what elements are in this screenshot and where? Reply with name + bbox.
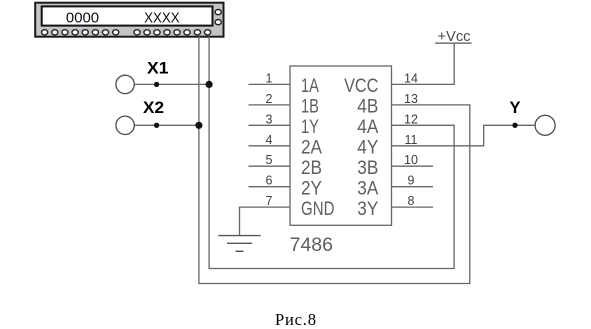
- svg-text:9: 9: [408, 174, 415, 188]
- svg-text:Рис.8: Рис.8: [275, 310, 316, 329]
- svg-text:11: 11: [405, 133, 418, 147]
- svg-text:GND: GND: [301, 198, 335, 220]
- svg-text:X1: X1: [147, 60, 169, 78]
- svg-text:3: 3: [266, 112, 273, 126]
- svg-text:8: 8: [408, 194, 415, 208]
- wire Vcc bar: [435, 42, 471, 44]
- IC pin name labels right column: [344, 75, 378, 220]
- svg-text:2Y: 2Y: [301, 177, 322, 199]
- svg-text:7: 7: [266, 194, 273, 208]
- wire pin 3 stub: [249, 124, 291, 126]
- wire net X2: analyzer hole 15 down, bottom run, up to pin 13 (4B): [199, 37, 470, 284]
- wire pin 7 to ground: [240, 207, 291, 236]
- wire pin 6 stub: [249, 186, 291, 188]
- terminal Y: [535, 115, 555, 135]
- ground symbol: [218, 236, 260, 252]
- svg-text:12: 12: [404, 112, 418, 126]
- svg-text:3B: 3B: [357, 157, 378, 179]
- wire net Y: pin 11 (4Y) to terminal: [392, 125, 536, 146]
- svg-text:4Y: 4Y: [357, 137, 378, 159]
- svg-text:2: 2: [266, 92, 273, 106]
- IC U1 7486 body: [290, 66, 392, 225]
- svg-text:7486: 7486: [290, 234, 333, 256]
- svg-text:14: 14: [404, 71, 418, 85]
- svg-text:6: 6: [266, 174, 273, 188]
- wire pin 8 stub: [392, 206, 434, 208]
- svg-text:4B: 4B: [357, 96, 378, 118]
- IC pin name labels left column: [301, 75, 335, 220]
- svg-text:3Y: 3Y: [357, 198, 378, 220]
- svg-text:VCC: VCC: [344, 75, 378, 97]
- svg-text:3A: 3A: [357, 177, 378, 199]
- svg-text:1B: 1B: [301, 96, 319, 118]
- wire pin 10 stub: [392, 165, 434, 167]
- wire X2 terminal to junction: [134, 124, 199, 126]
- junction dot X1/analyzer: [206, 81, 213, 88]
- svg-text:4A: 4A: [357, 116, 378, 138]
- wire X1 terminal to junction: [134, 83, 209, 85]
- wire pin 2 stub: [249, 104, 291, 106]
- analyzer connector holes row: [42, 30, 211, 35]
- wire pin 5 stub: [249, 165, 291, 167]
- terminal dot X2: [154, 123, 159, 128]
- svg-text:1Y: 1Y: [301, 116, 319, 138]
- svg-text:10: 10: [404, 153, 418, 167]
- logic analyzer display: [42, 6, 213, 25]
- svg-text:2B: 2B: [301, 157, 322, 179]
- terminal dot X1: [154, 82, 159, 87]
- svg-text:4: 4: [266, 133, 273, 147]
- wire pin 9 stub: [392, 186, 434, 188]
- svg-text:2A: 2A: [301, 137, 322, 159]
- analyzer side holes: [215, 10, 221, 25]
- svg-text:Y: Y: [510, 99, 521, 117]
- svg-text:13: 13: [404, 92, 418, 106]
- svg-text:1A: 1A: [301, 75, 319, 97]
- wire Vcc drop to pin 14: [392, 43, 455, 84]
- pin number labels left: [266, 71, 273, 208]
- svg-text:0000: 0000: [66, 9, 99, 26]
- logic analyzer instrument body: [35, 3, 223, 37]
- svg-text:X2: X2: [143, 99, 164, 117]
- wire net X1: analyzer hole 16 down, bottom run, up to pin 12 (4A): [209, 37, 454, 269]
- terminal dot Y: [512, 123, 517, 128]
- terminal X2: [116, 116, 134, 134]
- svg-text:5: 5: [266, 153, 273, 167]
- junction dot X2/analyzer: [195, 122, 202, 129]
- svg-text:+Vcc: +Vcc: [438, 28, 471, 45]
- pin number labels right: [404, 71, 418, 208]
- wire pin 4 stub: [249, 145, 291, 147]
- terminal X1: [116, 75, 134, 93]
- svg-text:XXXX: XXXX: [144, 9, 180, 26]
- svg-text:1: 1: [266, 71, 273, 85]
- wire pin 1 stub: [249, 83, 291, 85]
